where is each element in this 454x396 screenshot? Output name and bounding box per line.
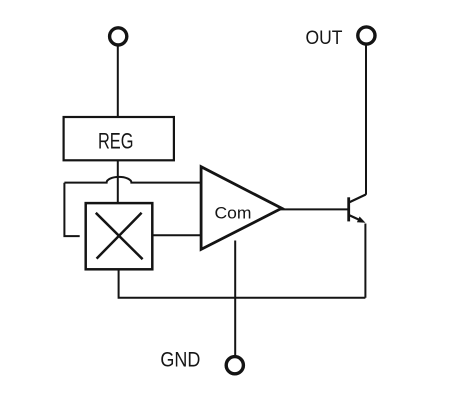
terminal circle (top-left supply pin): [110, 28, 127, 45]
svg-text:OUT: OUT: [306, 27, 343, 49]
wire: emitter lead down to ground rail: [364, 224, 366, 298]
wire: comparator output to transistor base: [281, 208, 349, 210]
transistor Q1 collector stroke: [349, 195, 365, 203]
svg-text:Com: Com: [215, 203, 252, 222]
multiplier X stroke 2: [97, 213, 142, 259]
wire: multiplier output to comparator lower input: [152, 234, 201, 236]
op-amp Com (comparator triangle): [201, 167, 282, 250]
wire: left feedback drop: [64, 183, 79, 236]
transistor Q1 emitter stroke with arrow: [349, 215, 361, 220]
svg-text:REG: REG: [98, 129, 134, 154]
terminal circle OUT: [358, 27, 375, 44]
transistor Q1 base bar: [347, 197, 350, 221]
multiplier box X1: [86, 203, 153, 269]
wire: top-left terminal to REG: [117, 46, 119, 117]
wire: multiplier bottom to ground rail: [119, 269, 366, 297]
wire with hop: feedback line to comparator upper input: [64, 177, 201, 183]
wire: collector lead up to OUT terminal: [365, 45, 367, 194]
terminal circle GND: [226, 357, 243, 374]
wire: comparator ground drop to GND terminal: [234, 241, 236, 356]
wire: REG to multiplier box: [117, 160, 119, 203]
multiplier X stroke 1: [96, 213, 143, 259]
svg-text:GND: GND: [160, 347, 200, 371]
block REG: [64, 117, 174, 160]
